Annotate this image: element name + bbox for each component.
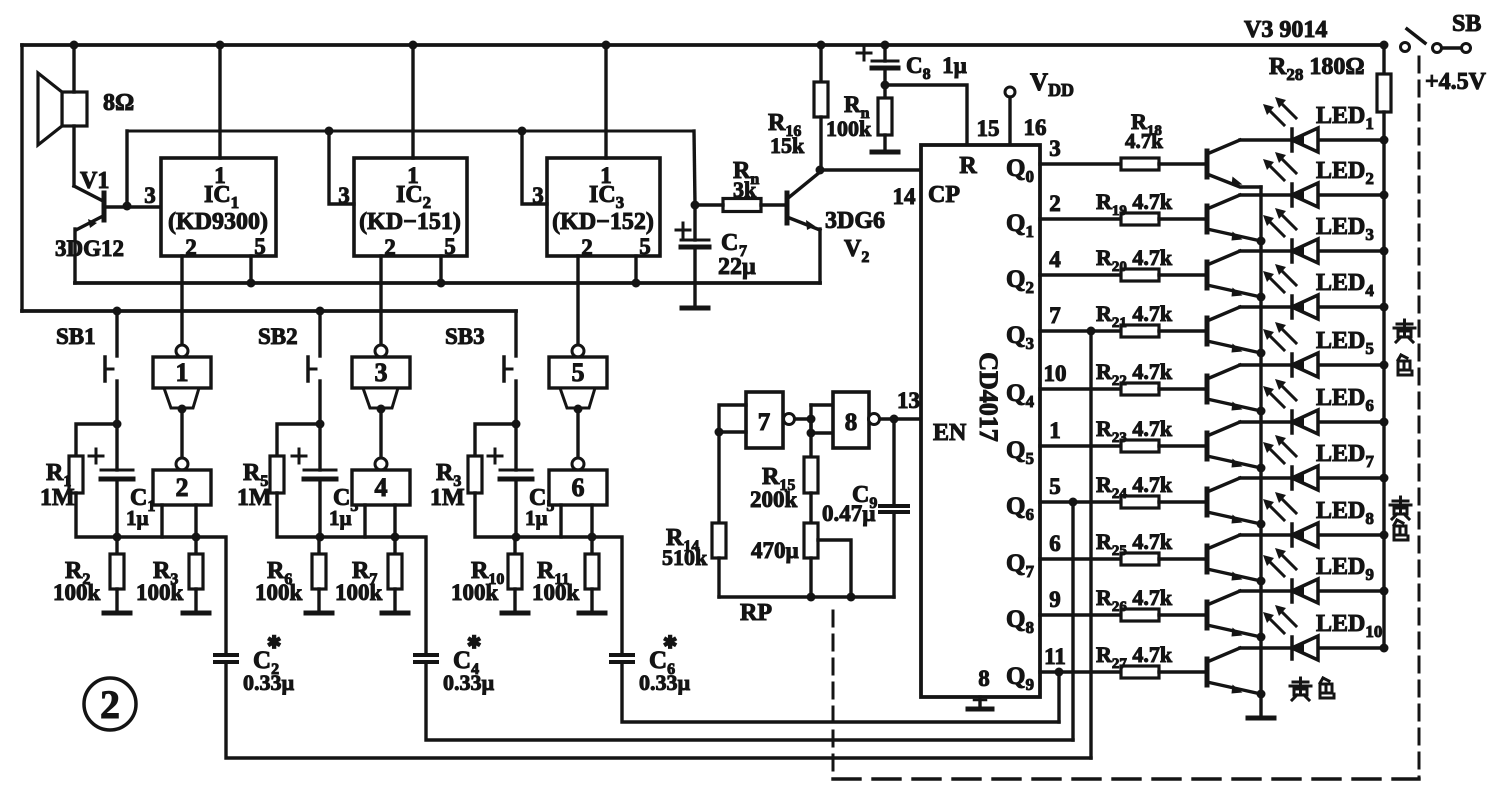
resistor R10 100k bbox=[451, 537, 522, 613]
pushbutton SB2 bbox=[258, 307, 325, 425]
wire R22 to base bbox=[1159, 387, 1205, 390]
label yellow (LED5) bbox=[1394, 320, 1415, 342]
svg-text:2: 2 bbox=[185, 235, 197, 260]
transistor LED driver T3 bbox=[1207, 251, 1261, 297]
svg-text:100k: 100k bbox=[826, 116, 872, 141]
svg-text:100k: 100k bbox=[53, 580, 101, 605]
svg-text:1µ: 1µ bbox=[525, 506, 548, 530]
svg-text:LED6: LED6 bbox=[1316, 385, 1374, 415]
LED LED7 bbox=[1240, 435, 1384, 490]
capacitor C4 0.33u bbox=[415, 633, 495, 695]
svg-text:510k: 510k bbox=[662, 545, 708, 570]
wire R21 to base bbox=[1159, 329, 1205, 332]
wire C8 node to pin 15 bbox=[885, 85, 967, 145]
svg-text:LED9: LED9 bbox=[1316, 554, 1374, 584]
svg-text:16: 16 bbox=[1024, 115, 1047, 140]
transistor V2 3DG6 bbox=[787, 172, 885, 283]
potentiometer RP 470u bbox=[740, 493, 851, 626]
svg-text:0.33µ: 0.33µ bbox=[443, 670, 495, 695]
ground for Rn bbox=[872, 150, 898, 155]
svg-text:✱: ✱ bbox=[663, 633, 677, 652]
svg-text:CP: CP bbox=[928, 182, 960, 208]
wire R27 to base bbox=[1159, 670, 1205, 673]
resistor R26 4.7k bbox=[1121, 609, 1159, 621]
wire IC3 pin 5 to common rail bbox=[634, 256, 637, 283]
svg-text:470µ: 470µ bbox=[751, 538, 799, 563]
capacitor C7 22u bbox=[676, 205, 756, 307]
svg-text:SB3: SB3 bbox=[445, 324, 485, 349]
svg-text:2: 2 bbox=[1049, 191, 1061, 216]
wire dashed enclosure right bbox=[1418, 57, 1421, 779]
resistor R14 510k bbox=[662, 432, 726, 597]
svg-text:3: 3 bbox=[375, 358, 388, 387]
LED LED5 bbox=[1240, 322, 1384, 377]
transistor LED driver T9 bbox=[1207, 591, 1261, 637]
transistor LED driver T2 bbox=[1207, 195, 1261, 241]
wire Q9 to R27 bbox=[1040, 670, 1121, 673]
transistor LED driver T1 bbox=[1207, 140, 1261, 187]
transistor LED driver T7 bbox=[1207, 478, 1261, 524]
resistor Rn 100k bbox=[826, 85, 892, 152]
wire CP (pin 14) bbox=[820, 168, 921, 171]
touch block 5 bbox=[549, 256, 607, 414]
svg-text:6: 6 bbox=[572, 473, 585, 502]
svg-text:13: 13 bbox=[897, 388, 920, 413]
svg-text:100k: 100k bbox=[136, 580, 184, 605]
svg-text:SB: SB bbox=[1452, 11, 1481, 37]
ground for R6 bbox=[306, 611, 332, 616]
wire lower common rail (emitters / pin5) bbox=[75, 281, 820, 285]
svg-text:0.47µ: 0.47µ bbox=[822, 501, 876, 526]
IC CD4017 bbox=[921, 145, 1040, 697]
svg-text:1M: 1M bbox=[430, 485, 465, 511]
wire R20 to base bbox=[1159, 273, 1205, 276]
svg-text:LED3: LED3 bbox=[1316, 214, 1374, 244]
svg-text:10: 10 bbox=[1044, 361, 1067, 386]
resistor R6 100k bbox=[255, 537, 326, 613]
figure number 2 circled bbox=[84, 678, 136, 730]
svg-text:R28 180Ω: R28 180Ω bbox=[1269, 54, 1365, 84]
svg-text:5: 5 bbox=[639, 234, 651, 259]
IC U3 (KD&#8722;152) bbox=[532, 158, 660, 260]
svg-text:SB1: SB1 bbox=[56, 324, 96, 349]
svg-text:V1: V1 bbox=[80, 168, 109, 194]
touch block 2 bbox=[153, 409, 211, 537]
wire Q5 to R23 bbox=[1040, 444, 1121, 447]
svg-text:LED2: LED2 bbox=[1316, 158, 1374, 188]
LED LED1 bbox=[1240, 97, 1384, 152]
capacitor C8 1u bbox=[857, 41, 967, 86]
wire Q1 to R19 bbox=[1040, 217, 1121, 220]
wire Q8 to R26 bbox=[1040, 613, 1121, 616]
wire Q4 to R22 bbox=[1040, 387, 1121, 390]
svg-text:7: 7 bbox=[758, 409, 771, 436]
ground for R7 bbox=[382, 611, 408, 616]
wire channel bottom node bbox=[320, 537, 426, 655]
transistor V1 3DG12 bbox=[55, 126, 161, 283]
IC U2 (KD&#8722;151) bbox=[338, 158, 467, 260]
svg-text:1: 1 bbox=[176, 358, 189, 387]
LED LED3 bbox=[1240, 208, 1384, 263]
svg-text:LED5: LED5 bbox=[1316, 328, 1374, 358]
svg-text:14: 14 bbox=[893, 184, 917, 209]
LED LED10 bbox=[1240, 605, 1384, 660]
wire R24 to base bbox=[1159, 500, 1205, 503]
resistor R5 1M bbox=[237, 424, 320, 537]
resistor R18 4.7k bbox=[1121, 158, 1159, 170]
capacitor C9 0.47u bbox=[822, 419, 908, 597]
transistor LED driver T8 bbox=[1207, 535, 1261, 581]
capacitor C6 0.33u bbox=[611, 633, 691, 695]
svg-text:✱: ✱ bbox=[267, 633, 281, 652]
wire top supply rail bbox=[22, 43, 1384, 47]
svg-text:(KD9300): (KD9300) bbox=[168, 209, 268, 235]
transistor LED driver T10 bbox=[1207, 648, 1261, 694]
resistor R22 4.7k bbox=[1121, 383, 1159, 395]
svg-text:4.7k: 4.7k bbox=[1125, 129, 1163, 153]
svg-text:2: 2 bbox=[176, 473, 189, 502]
svg-text:(KD−152): (KD−152) bbox=[552, 209, 654, 235]
pushbutton SB3 bbox=[445, 311, 516, 424]
transistor LED driver T4 bbox=[1207, 307, 1261, 353]
svg-text:SB2: SB2 bbox=[258, 324, 298, 349]
wire IC1 pin 1 to supply rail bbox=[218, 45, 221, 158]
LED LED2 bbox=[1240, 152, 1384, 207]
gate 7 bbox=[719, 392, 795, 448]
svg-text:4: 4 bbox=[375, 473, 388, 502]
LED LED4 bbox=[1240, 264, 1384, 319]
gate 8 bbox=[833, 392, 880, 448]
svg-text:V3 9014: V3 9014 bbox=[1244, 17, 1327, 43]
wire IC1 pin 5 to common rail bbox=[249, 256, 252, 283]
svg-text:1M: 1M bbox=[40, 485, 75, 511]
wire IC3 pin 3 bbox=[522, 131, 547, 204]
wire channel bottom node bbox=[516, 537, 622, 655]
wire left border bbox=[20, 45, 23, 311]
svg-text:22µ: 22µ bbox=[718, 254, 756, 280]
wire LED anode rail bbox=[1382, 140, 1385, 648]
svg-text:RP: RP bbox=[740, 600, 772, 626]
wire R23 to base bbox=[1159, 444, 1205, 447]
ground for R2 bbox=[104, 611, 130, 616]
wire common emitter rail bbox=[1259, 187, 1262, 718]
svg-text:1M: 1M bbox=[237, 485, 272, 511]
capacitor C2 0.33u bbox=[215, 633, 295, 695]
resistor R19 4.7k bbox=[1121, 213, 1159, 225]
resistor R27 4.7k bbox=[1121, 666, 1159, 678]
svg-text:C: C bbox=[721, 230, 738, 256]
wire Q2 to R20 bbox=[1040, 273, 1121, 276]
wire R19 to base bbox=[1159, 217, 1205, 220]
svg-text:8Ω: 8Ω bbox=[103, 90, 134, 116]
svg-text:100k: 100k bbox=[335, 580, 383, 605]
svg-text:100k: 100k bbox=[532, 580, 580, 605]
svg-text:5: 5 bbox=[1049, 474, 1061, 499]
svg-text:EN: EN bbox=[933, 420, 967, 446]
wire R18 to base bbox=[1159, 162, 1205, 165]
resistor R7 100k bbox=[335, 537, 402, 613]
svg-text:5: 5 bbox=[572, 358, 585, 387]
wire oscillator bottom bbox=[719, 595, 894, 598]
resistor R24 4.7k bbox=[1121, 496, 1159, 508]
svg-text:3: 3 bbox=[144, 183, 156, 208]
svg-text:5: 5 bbox=[254, 234, 266, 259]
svg-text:+4.5V: +4.5V bbox=[1425, 69, 1487, 95]
svg-text:CD4017: CD4017 bbox=[974, 352, 1003, 442]
wire gate8 out to EN pin 13 bbox=[880, 417, 921, 420]
wire IC3 pin 1 to supply rail bbox=[604, 45, 607, 158]
wire R25 to base bbox=[1159, 557, 1205, 560]
capacitor C5 1u electrolytic bbox=[488, 424, 554, 537]
resistor R23 4.7k bbox=[1121, 440, 1159, 452]
resistor R28 180 ohm bbox=[1269, 41, 1391, 141]
wire pin-3 interconnect rail bbox=[127, 130, 694, 133]
svg-text:11: 11 bbox=[1044, 644, 1066, 669]
LED LED6 bbox=[1240, 379, 1384, 434]
node VDD terminal (pin 16) bbox=[1005, 69, 1074, 145]
pushbutton SB1 bbox=[56, 307, 122, 425]
ground for R11 bbox=[579, 611, 605, 616]
touch block 3 bbox=[352, 256, 410, 414]
switch SB bbox=[1401, 11, 1487, 95]
ground for CD4017 pin 8 bbox=[978, 697, 981, 708]
wire Q3 feedback bbox=[1087, 327, 1096, 336]
wire Q6 to R24 bbox=[1040, 500, 1121, 503]
wire dashed enclosure bottom bbox=[833, 777, 1419, 780]
resistor Rn 3k bbox=[723, 199, 761, 212]
svg-text:6: 6 bbox=[1049, 531, 1061, 556]
svg-text:R: R bbox=[959, 153, 977, 179]
svg-text:✱: ✱ bbox=[467, 633, 481, 652]
svg-text:1µ: 1µ bbox=[329, 506, 352, 530]
svg-text:3: 3 bbox=[1049, 136, 1061, 161]
svg-text:1: 1 bbox=[1049, 418, 1061, 443]
resistor R16 15k bbox=[768, 41, 828, 171]
wire Q3 to R21 bbox=[1040, 329, 1121, 332]
svg-text:200k: 200k bbox=[750, 487, 798, 512]
ground for C7 bbox=[682, 306, 708, 311]
resistor R11 100k bbox=[532, 537, 599, 613]
wire C2 to CD4017 output bbox=[226, 662, 1091, 758]
wire IC2 pin 5 to common rail bbox=[439, 256, 442, 283]
svg-text:4: 4 bbox=[1049, 247, 1061, 272]
wire Q0 to R18 bbox=[1040, 162, 1121, 165]
transistor LED driver T6 bbox=[1207, 422, 1261, 468]
resistor R3 100k bbox=[136, 537, 203, 613]
capacitor C3 1u electrolytic bbox=[292, 424, 358, 537]
wire Q7 to R25 bbox=[1040, 557, 1121, 560]
resistor R25 4.7k bbox=[1121, 553, 1159, 565]
svg-text:3DG12: 3DG12 bbox=[55, 236, 124, 261]
svg-text:2: 2 bbox=[581, 235, 593, 260]
wire IC2 pin 1 to supply rail bbox=[411, 45, 414, 158]
svg-text:(KD−151): (KD−151) bbox=[359, 209, 461, 235]
svg-text:LED8: LED8 bbox=[1316, 498, 1374, 528]
wire rail to Rn3k node bbox=[694, 131, 695, 204]
resistor R20 4.7k bbox=[1121, 269, 1159, 281]
svg-text:2: 2 bbox=[100, 682, 120, 727]
resistor R21 4.7k bbox=[1121, 325, 1159, 337]
speaker 8 ohm bbox=[38, 41, 134, 146]
wire IC2 pin 3 bbox=[329, 131, 354, 204]
transistor LED driver T5 bbox=[1207, 365, 1261, 411]
resistor R3 1M bbox=[430, 424, 516, 537]
svg-text:5: 5 bbox=[444, 234, 456, 259]
svg-text:9: 9 bbox=[1049, 587, 1061, 612]
wire C4 to CD4017 output bbox=[426, 662, 1073, 740]
ground for R3 bbox=[183, 611, 209, 616]
svg-text:1µ: 1µ bbox=[126, 506, 149, 530]
svg-text:2: 2 bbox=[384, 235, 396, 260]
label yellow (LED8) bbox=[1390, 497, 1411, 519]
wire gate7 out to gate8 in bbox=[795, 417, 811, 420]
resistor R15 200k bbox=[750, 433, 818, 512]
wire Q6 feedback bbox=[1069, 498, 1078, 507]
svg-text:7: 7 bbox=[1049, 303, 1061, 328]
svg-text:LED1: LED1 bbox=[1316, 103, 1374, 133]
wire SB pushbutton rail bbox=[22, 309, 516, 313]
svg-text:0.33µ: 0.33µ bbox=[243, 670, 295, 695]
svg-text:15k: 15k bbox=[770, 133, 805, 158]
LED LED8 bbox=[1240, 492, 1384, 547]
svg-text:3k: 3k bbox=[733, 177, 757, 202]
touch block 4 bbox=[352, 409, 410, 537]
ground for emitter rail bbox=[1248, 716, 1274, 721]
svg-text:0.33µ: 0.33µ bbox=[639, 670, 691, 695]
LED LED9 bbox=[1240, 548, 1384, 603]
touch block 1 bbox=[153, 256, 211, 414]
wire Q9 feedback bbox=[1055, 668, 1064, 677]
touch block 6 bbox=[549, 409, 607, 537]
IC U1 (KD9300) bbox=[144, 158, 276, 260]
wire C6 to CD4017 output bbox=[622, 662, 1059, 722]
svg-text:8: 8 bbox=[978, 666, 990, 691]
svg-text:100k: 100k bbox=[255, 580, 303, 605]
svg-text:8: 8 bbox=[845, 409, 858, 436]
resistor R1 1M bbox=[40, 424, 117, 537]
wire IC1 pin 3 / node to rail bbox=[125, 131, 128, 206]
resistor R2 100k bbox=[53, 537, 124, 613]
wire dashed enclosure left bbox=[832, 611, 835, 779]
capacitor C1 1u electrolytic bbox=[89, 424, 155, 537]
svg-text:100k: 100k bbox=[451, 580, 499, 605]
wire channel bottom node bbox=[117, 537, 226, 655]
wire R26 to base bbox=[1159, 613, 1205, 616]
svg-text:15: 15 bbox=[977, 116, 1000, 141]
ground for R10 bbox=[502, 611, 528, 616]
svg-text:3DG6: 3DG6 bbox=[825, 208, 885, 234]
label yellow (LED10) bbox=[1290, 678, 1311, 700]
